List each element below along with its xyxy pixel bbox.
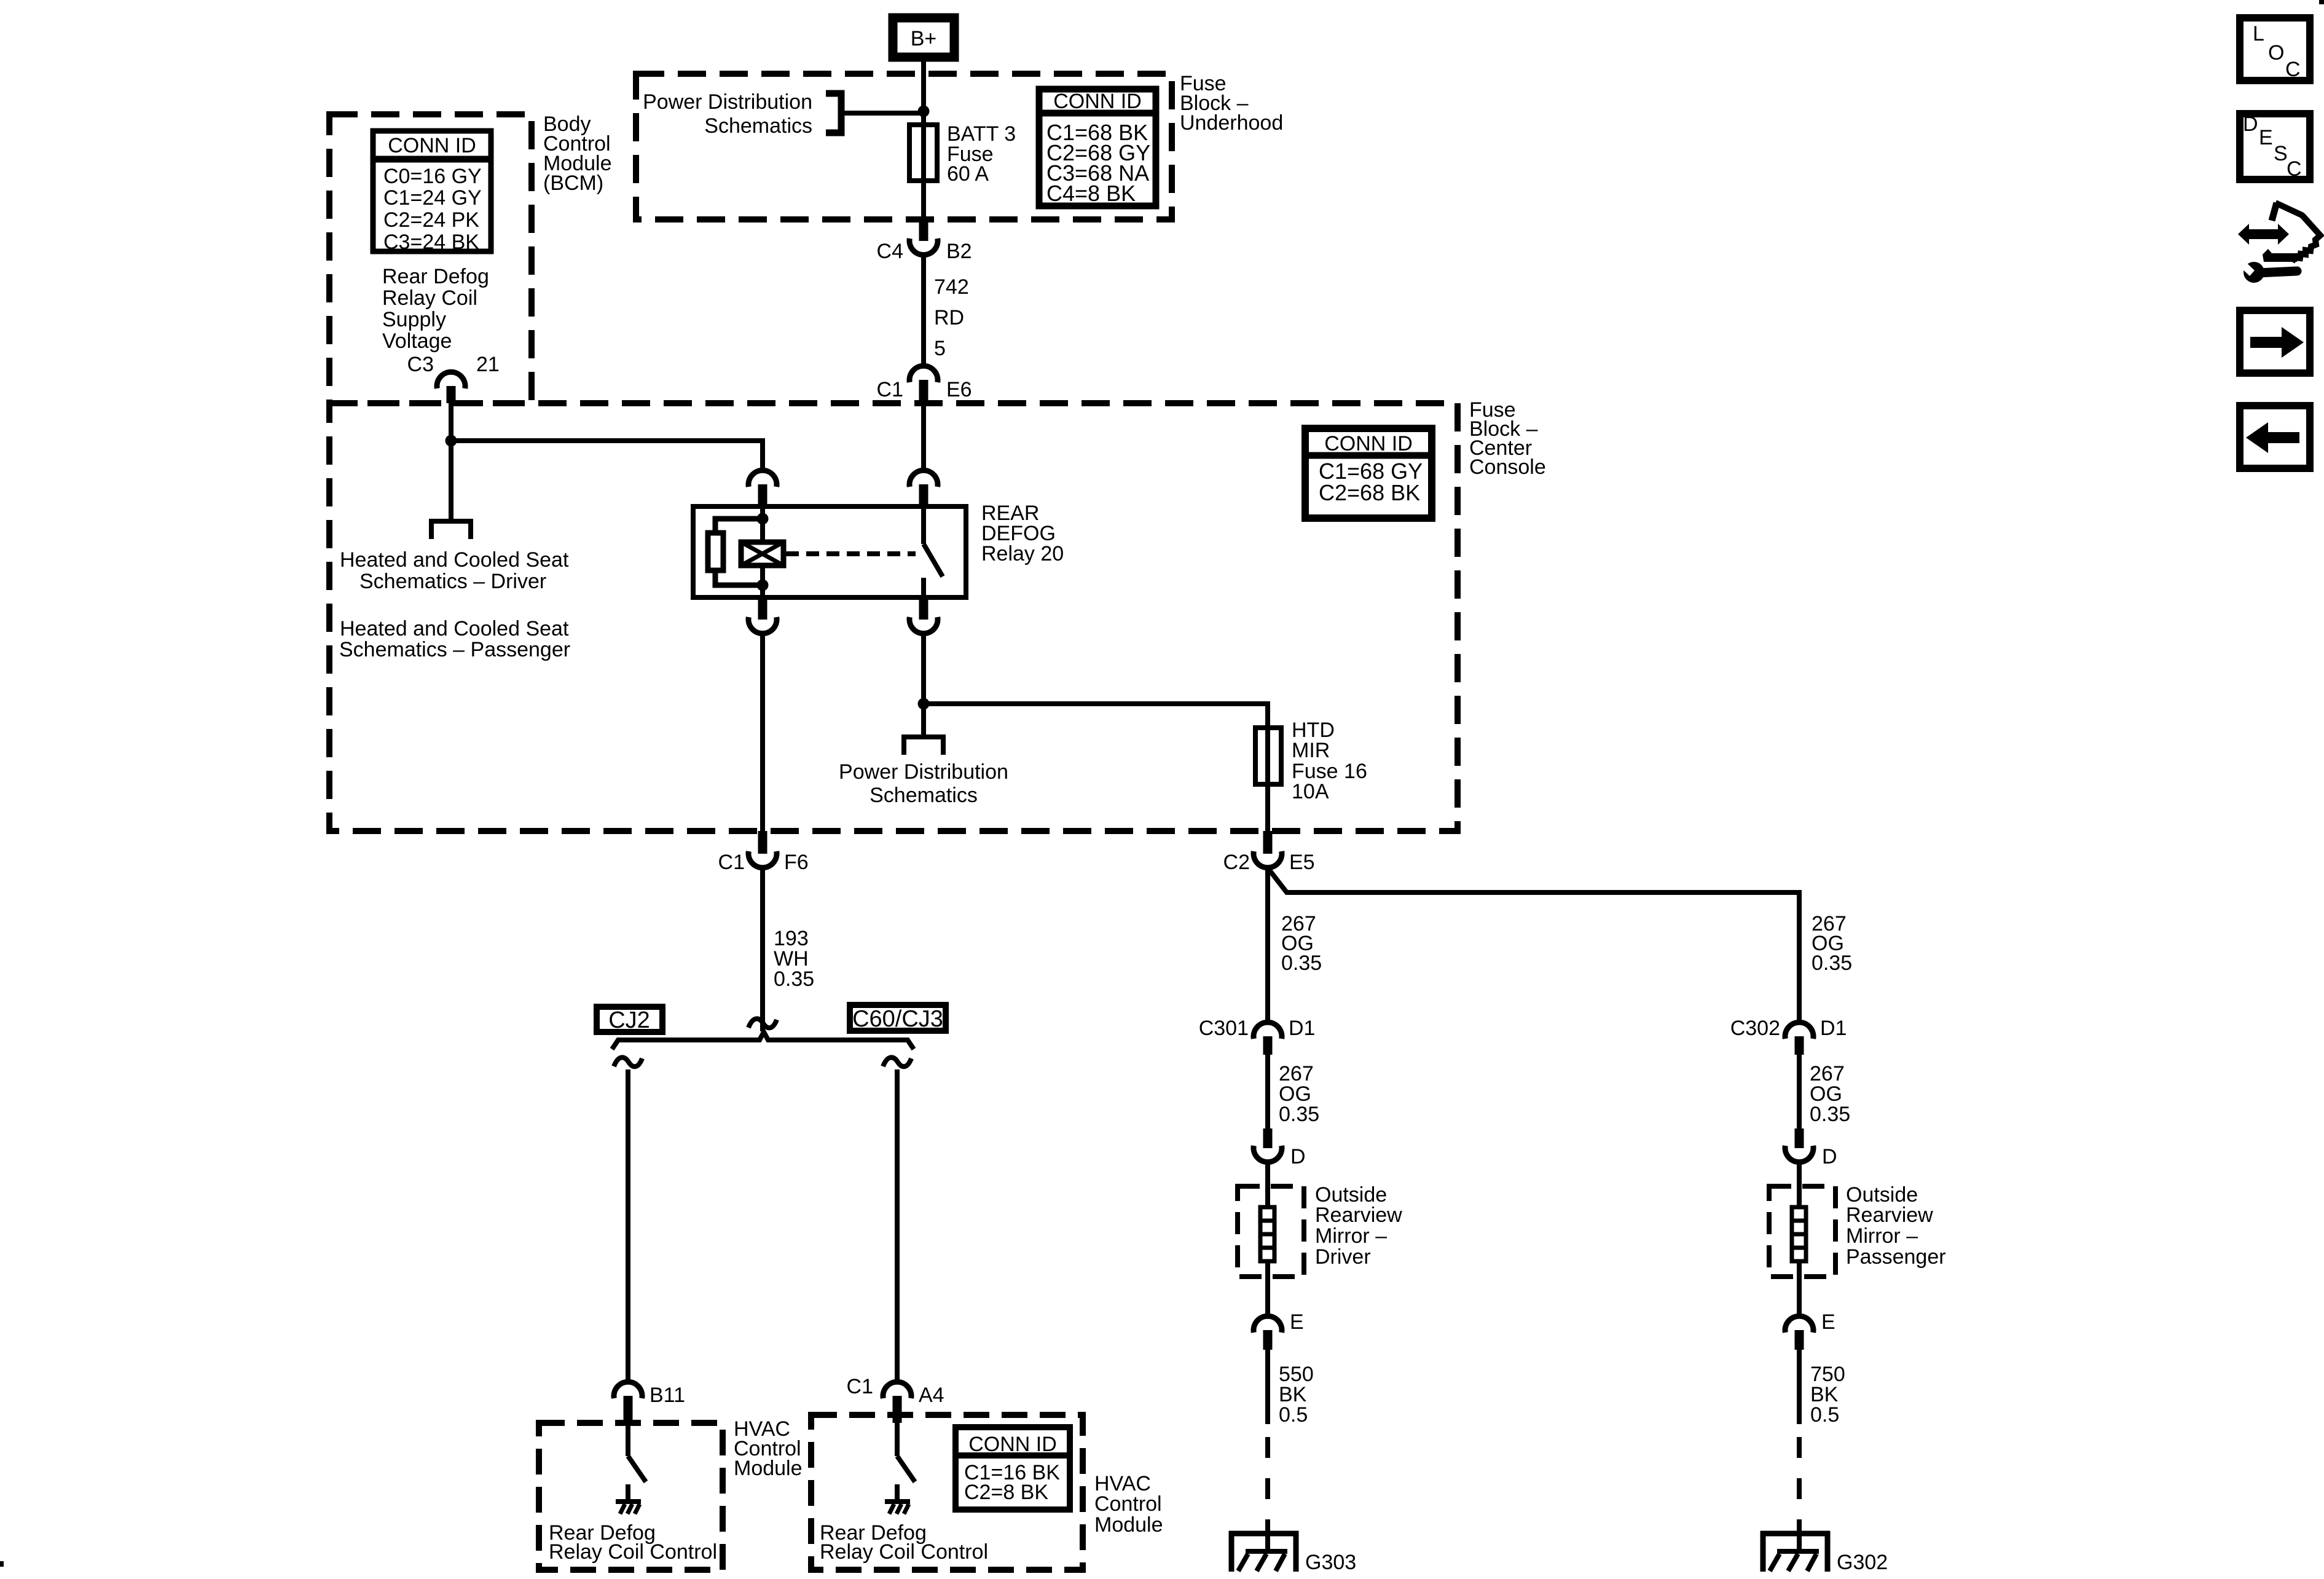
svg-text:Rearview: Rearview — [1315, 1203, 1402, 1227]
svg-text:L: L — [2253, 22, 2264, 45]
svg-text:21: 21 — [476, 353, 500, 376]
svg-text:Heated and Cooled Seat: Heated and Cooled Seat — [340, 548, 569, 572]
svg-text:Power Distribution: Power Distribution — [643, 90, 812, 114]
svg-text:E: E — [2259, 126, 2273, 149]
svg-text:Schematics – Driver: Schematics – Driver — [359, 570, 546, 593]
svg-text:Control: Control — [1094, 1492, 1162, 1516]
svg-text:5: 5 — [934, 337, 946, 360]
svg-text:RD: RD — [934, 306, 964, 329]
svg-text:F6: F6 — [784, 851, 809, 874]
svg-text:D: D — [2243, 112, 2258, 136]
svg-text:Relay 20: Relay 20 — [981, 542, 1064, 565]
svg-text:C1: C1 — [847, 1375, 873, 1398]
svg-text:A4: A4 — [919, 1384, 944, 1407]
svg-text:B2: B2 — [946, 240, 972, 263]
svg-text:Underhood: Underhood — [1180, 111, 1283, 135]
svg-text:D: D — [1290, 1145, 1306, 1168]
svg-text:E: E — [1290, 1310, 1304, 1334]
svg-text:B11: B11 — [650, 1384, 685, 1407]
svg-text:B+: B+ — [911, 27, 937, 50]
svg-text:Rear Defog: Rear Defog — [382, 265, 489, 288]
svg-text:Relay Coil Control: Relay Coil Control — [820, 1540, 988, 1564]
svg-text:Power Distribution: Power Distribution — [839, 760, 1008, 784]
svg-text:10A: 10A — [1292, 780, 1329, 803]
svg-text:C1=24 GY: C1=24 GY — [383, 186, 482, 210]
svg-text:C: C — [2285, 58, 2301, 81]
svg-text:Passenger: Passenger — [1846, 1245, 1946, 1269]
svg-text:C4=8 BK: C4=8 BK — [1046, 181, 1136, 206]
svg-text:CONN ID: CONN ID — [388, 134, 476, 157]
svg-text:MIR: MIR — [1292, 739, 1330, 762]
svg-text:CONN ID: CONN ID — [1053, 90, 1142, 113]
svg-text:0.5: 0.5 — [1279, 1403, 1308, 1427]
svg-text:Relay Coil: Relay Coil — [382, 286, 477, 310]
svg-text:C: C — [2287, 157, 2302, 181]
svg-text:0.5: 0.5 — [1810, 1403, 1839, 1427]
svg-text:C301: C301 — [1199, 1017, 1249, 1040]
svg-text:C4: C4 — [877, 240, 903, 263]
svg-text:E6: E6 — [946, 378, 972, 401]
svg-text:742: 742 — [934, 275, 969, 299]
svg-text:Schematics – Passenger: Schematics – Passenger — [339, 638, 570, 661]
svg-text:C2: C2 — [1223, 851, 1250, 874]
svg-text:G302: G302 — [1837, 1551, 1888, 1574]
svg-text:Heated and Cooled Seat: Heated and Cooled Seat — [340, 617, 569, 640]
svg-text:S: S — [2274, 142, 2288, 165]
svg-text:Supply: Supply — [382, 308, 446, 331]
svg-text:CJ2: CJ2 — [608, 1007, 650, 1033]
svg-text:Schematics: Schematics — [704, 114, 812, 138]
svg-text:Driver: Driver — [1315, 1245, 1371, 1269]
svg-text:C2=24 PK: C2=24 PK — [383, 208, 479, 232]
svg-text:Module: Module — [734, 1457, 803, 1480]
svg-text:0.35: 0.35 — [1279, 1103, 1319, 1126]
svg-text:Rearview: Rearview — [1846, 1203, 1933, 1227]
svg-text:C60/CJ3: C60/CJ3 — [852, 1006, 943, 1032]
svg-text:Mirror –: Mirror – — [1315, 1224, 1387, 1248]
svg-text:60 A: 60 A — [947, 162, 989, 186]
svg-text:Schematics: Schematics — [870, 784, 978, 807]
svg-text:D1: D1 — [1820, 1017, 1847, 1040]
svg-text:CONN ID: CONN ID — [1324, 432, 1413, 455]
svg-text:C3=24 BK: C3=24 BK — [383, 230, 479, 254]
svg-text:(BCM): (BCM) — [543, 171, 603, 195]
svg-text:Module: Module — [1094, 1513, 1163, 1537]
svg-text:E: E — [1821, 1310, 1835, 1334]
svg-text:0.35: 0.35 — [774, 967, 814, 991]
svg-text:C1: C1 — [877, 378, 903, 401]
svg-text:Voltage: Voltage — [382, 329, 452, 353]
svg-text:C302: C302 — [1730, 1017, 1780, 1040]
svg-text:D1: D1 — [1289, 1017, 1315, 1040]
svg-text:C0=16 GY: C0=16 GY — [383, 165, 482, 188]
svg-text:G303: G303 — [1305, 1551, 1356, 1574]
svg-text:0.35: 0.35 — [1812, 951, 1852, 975]
svg-text:O: O — [2268, 41, 2284, 65]
svg-text:Relay Coil Control: Relay Coil Control — [549, 1540, 717, 1564]
svg-text:0.35: 0.35 — [1281, 951, 1322, 975]
svg-text:C2=68 BK: C2=68 BK — [1319, 480, 1420, 505]
svg-text:C2=8 BK: C2=8 BK — [964, 1481, 1048, 1504]
svg-text:CONN ID: CONN ID — [968, 1433, 1057, 1456]
svg-text:C3: C3 — [407, 353, 434, 376]
svg-text:Console: Console — [1469, 455, 1546, 479]
svg-text:Mirror –: Mirror – — [1846, 1224, 1918, 1248]
svg-text:E5: E5 — [1289, 851, 1315, 874]
svg-text:C1: C1 — [718, 851, 745, 874]
svg-text:0.35: 0.35 — [1810, 1103, 1850, 1126]
svg-text:D: D — [1822, 1145, 1837, 1168]
